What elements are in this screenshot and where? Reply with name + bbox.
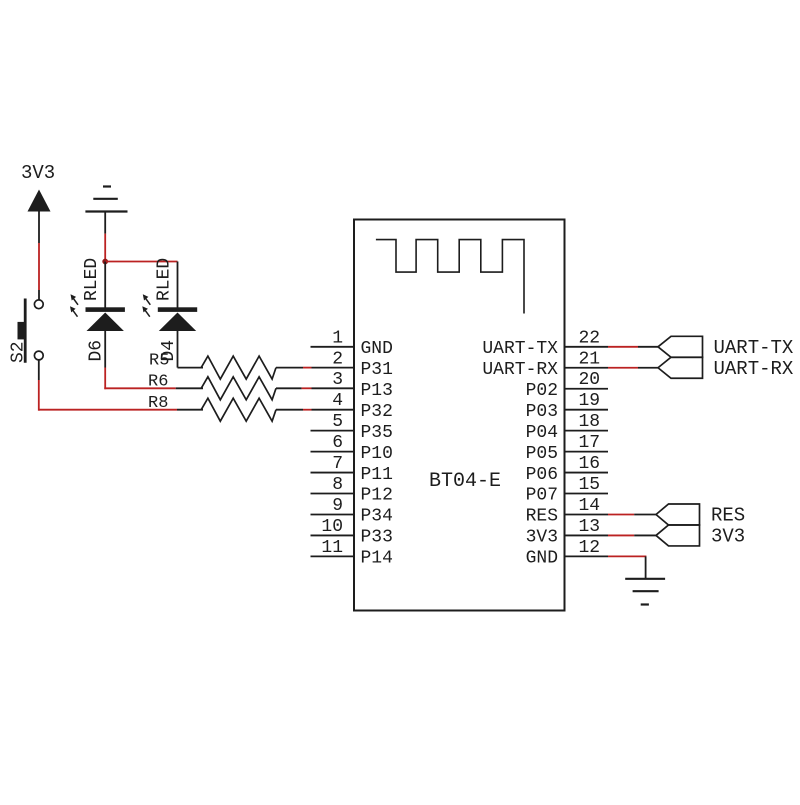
label UART-RX [714, 358, 794, 380]
pin 2 P31 [332, 349, 393, 380]
pin 16 P06 [526, 454, 608, 485]
svg-text:P12: P12 [361, 486, 393, 506]
wire D6 to R6 [104, 331, 203, 389]
svg-text:RLED: RLED [82, 258, 102, 301]
svg-text:20: 20 [579, 370, 601, 390]
svg-text:3V3: 3V3 [21, 162, 55, 184]
svg-text:P04: P04 [526, 423, 558, 443]
svg-text:P33: P33 [361, 528, 393, 548]
connector flag RES [656, 504, 700, 525]
wire R8 to pin 4 [276, 409, 354, 411]
svg-text:P02: P02 [526, 381, 558, 401]
svg-text:9: 9 [332, 496, 343, 516]
LED D4 [142, 294, 197, 331]
connector flag UART-RX [658, 357, 703, 378]
pin 10 P33 [311, 517, 393, 548]
svg-text:RES: RES [526, 507, 558, 527]
power symbol 3V3 [21, 162, 55, 212]
label 3V3 [711, 526, 745, 548]
svg-text:UART-TX: UART-TX [482, 339, 558, 359]
svg-text:P32: P32 [361, 402, 393, 422]
svg-text:UART-RX: UART-RX [482, 360, 558, 380]
svg-text:13: 13 [579, 517, 601, 537]
pin 21 UART-RX [482, 349, 658, 380]
pin 15 P07 [526, 475, 608, 506]
label D6 [87, 340, 107, 362]
connector flag 3V3 [656, 525, 700, 546]
label UART-TX [714, 337, 794, 359]
svg-text:P07: P07 [526, 486, 558, 506]
svg-text:15: 15 [579, 475, 601, 495]
label BT04-E [429, 470, 501, 493]
pin 18 P04 [526, 412, 608, 443]
label RLED for D6 [82, 258, 102, 301]
pin 3 P13 [332, 370, 393, 401]
svg-text:3V3: 3V3 [526, 528, 558, 548]
pin 6 P10 [311, 433, 393, 464]
svg-text:4: 4 [332, 391, 343, 411]
svg-text:12: 12 [579, 538, 601, 558]
svg-text:R6: R6 [148, 373, 168, 392]
svg-text:P35: P35 [361, 423, 393, 443]
svg-text:16: 16 [579, 454, 601, 474]
svg-text:21: 21 [579, 349, 601, 369]
pin 20 P02 [526, 370, 608, 401]
label R5 [149, 352, 169, 371]
svg-text:19: 19 [579, 391, 601, 411]
IC U1 BT04-E body [354, 220, 565, 611]
svg-text:UART-RX: UART-RX [714, 358, 794, 380]
wire R5 to pin 2 [276, 367, 354, 369]
svg-text:2: 2 [332, 349, 343, 369]
label R8 [148, 394, 168, 413]
label S2 [9, 341, 29, 363]
wire R6 to pin 3 [276, 387, 354, 389]
wire S2 to R8 [39, 360, 203, 411]
resistor R6 [201, 377, 276, 400]
pin 19 P03 [526, 391, 608, 422]
svg-text:P14: P14 [361, 549, 393, 569]
svg-text:GND: GND [526, 549, 558, 569]
svg-text:RES: RES [711, 505, 745, 527]
svg-text:S2: S2 [9, 341, 29, 363]
svg-text:18: 18 [579, 412, 601, 432]
pin 8 P12 [311, 475, 393, 506]
pin 9 P34 [311, 496, 393, 527]
wire D4 to R5 [178, 331, 204, 368]
pin 5 P35 [311, 412, 393, 443]
svg-text:UART-TX: UART-TX [714, 337, 794, 359]
svg-text:6: 6 [332, 433, 343, 453]
svg-text:RLED: RLED [154, 258, 174, 301]
svg-text:P05: P05 [526, 444, 558, 464]
svg-text:7: 7 [332, 454, 343, 474]
node junction [102, 259, 108, 265]
svg-text:P10: P10 [361, 444, 393, 464]
wire junction to D4 [105, 262, 177, 308]
label RES [711, 505, 745, 527]
pin 4 P32 [332, 391, 393, 422]
ground (inverted, top) [85, 187, 127, 212]
wire 3V3 to S2 [38, 211, 40, 300]
svg-text:P03: P03 [526, 402, 558, 422]
resistor R5 [201, 356, 276, 379]
svg-text:P06: P06 [526, 465, 558, 485]
svg-text:1: 1 [332, 328, 343, 348]
svg-text:P11: P11 [361, 465, 393, 485]
svg-text:3V3: 3V3 [711, 526, 745, 548]
pin 22 UART-TX [482, 328, 658, 359]
svg-text:11: 11 [321, 538, 343, 558]
svg-text:R8: R8 [148, 394, 168, 413]
pin 17 P05 [526, 433, 608, 464]
pin 11 P14 [311, 538, 393, 569]
ground (bottom right) [625, 579, 665, 605]
connector flag UART-TX [658, 336, 703, 357]
svg-text:10: 10 [321, 517, 343, 537]
wire pin 12 to ground [645, 556, 647, 578]
svg-text:14: 14 [579, 496, 601, 516]
LED D6 [70, 294, 125, 331]
svg-text:5: 5 [332, 412, 343, 432]
pin 1 GND [311, 328, 393, 359]
pin 13 3V3 [526, 517, 656, 548]
resistor R8 [201, 398, 276, 421]
svg-text:P31: P31 [361, 360, 393, 380]
pin 12 GND [526, 538, 647, 569]
svg-text:17: 17 [579, 433, 601, 453]
label R6 [148, 373, 168, 392]
svg-text:3: 3 [332, 370, 343, 390]
svg-text:8: 8 [332, 475, 343, 495]
switch S2 [18, 299, 44, 363]
pin 7 P11 [311, 454, 393, 485]
antenna symbol [376, 240, 524, 314]
svg-text:BT04-E: BT04-E [429, 470, 501, 493]
wire junction to D6 [104, 262, 106, 308]
svg-text:P34: P34 [361, 507, 393, 527]
wire ground to junction [104, 212, 106, 263]
svg-text:P13: P13 [361, 381, 393, 401]
svg-text:D6: D6 [87, 340, 107, 362]
label D4 [159, 340, 179, 362]
pin 14 RES [526, 496, 656, 527]
svg-text:GND: GND [361, 339, 393, 359]
svg-text:22: 22 [579, 328, 601, 348]
label RLED for D4 [154, 258, 174, 301]
svg-text:R5: R5 [149, 352, 169, 371]
